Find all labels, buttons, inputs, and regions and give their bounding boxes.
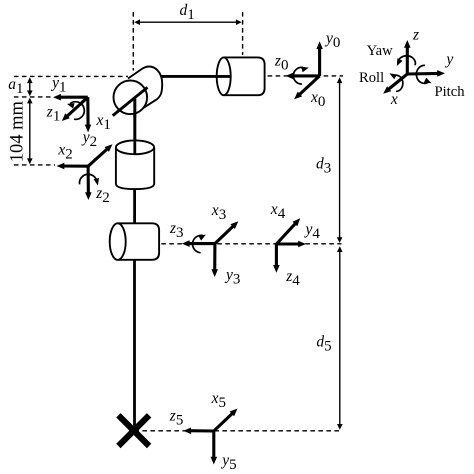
dimension d3 arrow line: [339, 80, 341, 240]
svg-text:Pitch: Pitch: [435, 84, 466, 100]
dimension a1 arrow line: [29, 80, 31, 93]
frame 5: y5 axis: [212, 431, 215, 460]
frame 2: y2 axis: [88, 147, 109, 166]
dashed construction line: horizontal from joint2 to frame0 and d3: [268, 75, 343, 77]
frame 3: x3 axis: [215, 224, 235, 243]
dimension d5 arrow line: [339, 249, 341, 427]
joint1 rotation axis (thick diagonal line): [113, 87, 148, 115]
dashed construction line: horizontal at frame2 level: [14, 164, 55, 166]
frame 2: z2 axis: [87, 166, 90, 196]
RPY roll rotation arc around x: [394, 75, 403, 91]
frame 4: z4 axis: [275, 244, 278, 269]
frame 4: x4 axis: [276, 221, 297, 244]
frame 0: z0 axis: [290, 74, 320, 77]
frame 0: x0 axis: [297, 76, 319, 97]
frame 4: y4 axis: [276, 242, 301, 245]
svg-text:Roll: Roll: [359, 70, 384, 86]
dashed construction line: horizontal at tool point / frame5 level: [134, 430, 341, 432]
link line: vertical segment over joint1 circle: [133, 97, 136, 118]
svg-text:y: y: [444, 51, 453, 68]
svg-text:z: z: [412, 27, 419, 44]
RPY pitch rotation arc around y: [416, 65, 428, 83]
frame 3: y3 axis: [213, 244, 216, 273]
link line: vertical inside joint3 top ellipse: [133, 99, 136, 154]
frame 5: x5 axis: [214, 412, 235, 432]
tool point X marker: [118, 415, 149, 446]
dimension 104mm arrow line: [29, 101, 31, 162]
frame 3: z3 axis: [186, 242, 215, 245]
RPY frame: x axis: [386, 74, 407, 91]
dashed construction line: vertical at left end of d1: [132, 12, 134, 71]
frame 0: rotation arc around z0: [293, 67, 303, 84]
frame 1: x1 axis: [86, 97, 89, 128]
RPY yaw rotation arc around z: [398, 56, 416, 65]
joint2 cylinder (horizontal, top right): [217, 57, 265, 95]
frame 2: rotation arc around z2: [79, 174, 96, 184]
dimension d1 arrow line: [137, 21, 239, 23]
frame 1: y1 axis: [57, 96, 87, 99]
svg-text:Yaw: Yaw: [367, 43, 394, 59]
svg-text:104 mm: 104 mm: [7, 101, 27, 163]
frame 1: rotation arc around z1: [70, 102, 84, 120]
frame 5: z5 axis: [188, 429, 214, 432]
svg-text:x: x: [390, 91, 398, 108]
link line: vertical from joint3 to joint4: [133, 189, 136, 223]
frame 3: rotation arc around z3: [193, 235, 203, 252]
RPY frame: y axis: [407, 72, 440, 76]
dashed construction line: horizontal at a1 top left of joint1: [14, 75, 128, 77]
link line: vertical from joint4 down to tool point X: [133, 260, 136, 427]
frame 2: x2 axis: [61, 164, 88, 167]
dashed construction line: vertical at right end of d1: [242, 12, 244, 55]
joint1 cylinder (tilted, shoulder): [114, 67, 163, 115]
RPY frame: z axis: [406, 44, 409, 74]
joint3 cylinder (vertical): [116, 140, 154, 189]
link line: vertical from joint1 down to joint3: [133, 97, 136, 154]
link line: horizontal from joint1 to joint2: [157, 75, 231, 78]
frame 0: y0 axis: [318, 46, 321, 76]
joint4 cylinder (horizontal, wrist): [110, 223, 159, 260]
frame 1: z1 axis: [65, 97, 88, 118]
dashed construction line: horizontal at frame1 level: [14, 96, 54, 98]
dashed construction line: horizontal through frames 3 and 4: [161, 243, 341, 245]
